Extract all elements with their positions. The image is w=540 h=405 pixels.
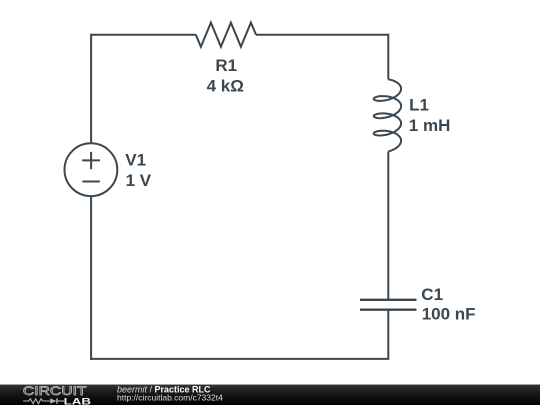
wire capacitor to bottom corner — [387, 310, 389, 359]
svg-text:1 V: 1 V — [126, 171, 152, 190]
wire inductor to capacitor — [387, 152, 389, 300]
wire right vertical upper — [387, 34, 389, 80]
footer bar — [0, 384, 540, 405]
svg-text:C1: C1 — [421, 285, 443, 304]
wire top horizontal left segment — [91, 34, 196, 36]
voltage source V1 circle — [65, 143, 118, 196]
logo wire to LAB — [57, 400, 64, 402]
svg-text:L1: L1 — [409, 96, 429, 115]
svg-text:1 mH: 1 mH — [409, 116, 451, 135]
logo diode symbol — [50, 399, 56, 404]
V1 plus sign — [82, 152, 100, 169]
wire left vertical lower — [90, 196, 92, 360]
inductor L1 coil — [374, 79, 401, 151]
capacitor C1 bottom plate — [360, 309, 417, 311]
footer background bar — [0, 385, 540, 405]
svg-text:http://circuitlab.com/c7332t4: http://circuitlab.com/c7332t4 — [117, 393, 223, 403]
wire top horizontal right segment — [256, 34, 388, 36]
V1 minus sign — [82, 181, 99, 183]
svg-text:4 kΩ: 4 kΩ — [207, 76, 244, 95]
svg-text:LAB: LAB — [64, 397, 91, 405]
wire bottom horizontal — [90, 358, 389, 360]
wire left vertical upper — [90, 34, 92, 144]
svg-text:R1: R1 — [215, 56, 237, 75]
logo resistor zigzag — [23, 399, 50, 404]
svg-text:100 nF: 100 nF — [422, 305, 476, 324]
capacitor C1 top plate — [360, 299, 417, 301]
resistor R1 — [196, 23, 256, 47]
svg-text:V1: V1 — [125, 151, 146, 170]
